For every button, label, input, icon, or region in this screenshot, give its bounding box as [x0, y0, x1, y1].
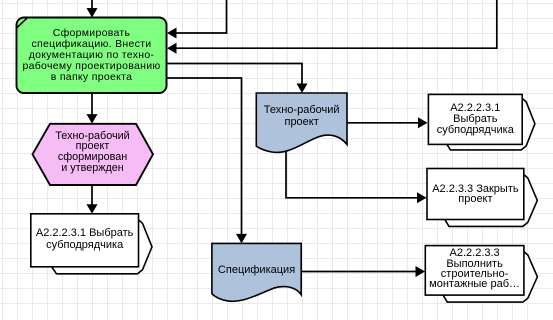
wire: green box down to event hexagon [87, 93, 98, 124]
wire: document Спецификация to A2.2.2.3.3 [301, 266, 425, 277]
process reference R1: А2.2.2.3.1 Выбрать субподрядчика (right) [428, 94, 535, 149]
process reference R3: А2.2.2.3.3 Выполнить строительно-монтажные раб… (right) [425, 246, 537, 303]
event hexagon (pink): Техно-рабочий проект сформирован и утвержден [33, 124, 154, 185]
document Техно-рабочий проект (blue) [256, 93, 347, 152]
label: document 1 text [256, 104, 347, 128]
label: hexagon text [32, 131, 153, 175]
wire: green box to document Спецификация [166, 78, 247, 243]
label: document 2 text [212, 265, 301, 276]
process reference L1: А2.2.2.3.1 Выбрать субподрядчика (bottom left) [31, 214, 152, 274]
label: R3 text [425, 248, 524, 290]
wire: green box to document Техно-рабочий проект [166, 64, 308, 94]
wire: hexagon down to process reference A2.2.2.3.1 (left) [87, 185, 98, 214]
wire: document Техно-рабочий проект down/right to A2.2.3.3 [286, 149, 427, 203]
label: green process box text [17, 28, 167, 83]
document Спецификация (blue) [212, 243, 301, 301]
wire: incoming arrow 1 from top (x=226.5) into green box right side [167, 0, 227, 39]
label: R2 text [427, 184, 524, 205]
label: L1 text [31, 228, 139, 251]
wire: document Техно-рабочий проект to A2.2.2.3.1 (right) [347, 117, 428, 128]
process box (green): Сформировать спецификацию [17, 17, 167, 93]
wire: incoming arrow 2 from top (x=498) into green box right side [167, 0, 497, 54]
process reference R2: А2.2.3.3 Закрыть проект (right) [427, 169, 537, 227]
label: R1 text [428, 103, 522, 136]
wire: top arrow into green process box [87, 0, 98, 18]
